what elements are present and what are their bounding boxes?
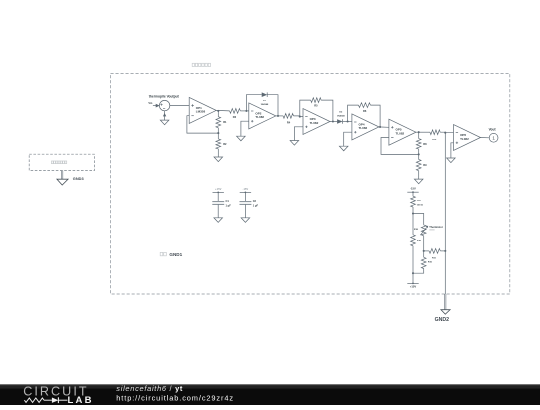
- node OP5 out: [418, 131, 420, 133]
- svg-text:TL082: TL082: [460, 137, 469, 141]
- resistor R5: [311, 98, 321, 103]
- wire OP1 out: [216, 109, 229, 112]
- wire OP4 out to OP5 +in: [378, 126, 389, 128]
- ground GND3: [57, 179, 68, 185]
- op-amp OP5 TL082: [389, 119, 416, 145]
- svg-text:-15V: -15V: [410, 187, 416, 191]
- svg-text:GND2: GND2: [435, 317, 450, 323]
- ground under OP4: [339, 146, 348, 151]
- power -15V for C2: [240, 187, 251, 194]
- wire OP2 +in to ground: [241, 121, 249, 136]
- label C2: [253, 199, 257, 203]
- label thermopile Voutput: [149, 95, 180, 99]
- CircuitLab logo text: [23, 385, 88, 399]
- wire R4 to OP3 -in: [294, 115, 304, 118]
- svg-text:GND1: GND1: [169, 252, 182, 257]
- resistor R2: [216, 139, 221, 149]
- svg-text:Vout: Vout: [489, 128, 497, 132]
- label GND1: [169, 252, 182, 257]
- svg-text:1 μF: 1 μF: [253, 203, 259, 207]
- ground GND3 stem: [62, 171, 63, 180]
- wire V1 to ground: [164, 111, 166, 120]
- CircuitLab logo diode: [52, 397, 68, 403]
- wire V1 to OP1 +in: [170, 105, 189, 107]
- diode D1 1N4148: [262, 92, 268, 97]
- wire C1 to ground: [217, 204, 219, 217]
- svg-text:TL082: TL082: [359, 126, 368, 130]
- wire R15 to bridge bottom: [413, 269, 424, 274]
- wire feedback to OP5 -in: [381, 138, 419, 155]
- label R2: [223, 142, 227, 146]
- op-amp OP6 TL082: [454, 125, 481, 151]
- node thermistor bottom: [423, 250, 425, 252]
- resistor R11: [429, 249, 440, 254]
- svg-text:TL082: TL082: [396, 132, 405, 136]
- node OP4 out: [379, 126, 381, 128]
- svg-text:1N4148: 1N4148: [261, 103, 269, 106]
- ground GND2 stem: [445, 294, 446, 310]
- label R6: [363, 109, 367, 113]
- ground under C2: [241, 218, 250, 223]
- footer bar: [0, 384, 540, 405]
- wire R8 to node: [418, 149, 420, 154]
- wire OP6 out to Vout: [480, 137, 489, 139]
- svg-text:TL082: TL082: [310, 121, 319, 125]
- node R11 GND2 wire: [444, 250, 446, 252]
- svg-text:1 μF: 1 μF: [226, 203, 232, 207]
- wire C2 to ground: [244, 204, 246, 217]
- svg-text:C2: C2: [253, 199, 257, 203]
- label C1 value: [226, 203, 232, 207]
- label R11: [432, 257, 437, 259]
- node OP2 -in: [245, 110, 247, 112]
- thermistor R18: [420, 225, 428, 236]
- node bridge bottom: [412, 272, 414, 274]
- node OP3 out: [332, 120, 334, 122]
- resistor R16: [411, 235, 416, 246]
- node OP4 -in: [347, 120, 349, 122]
- label R5: [314, 104, 318, 108]
- svg-text:R3: R3: [233, 115, 237, 119]
- label R3: [233, 115, 237, 119]
- wire R3 to OP2 -in: [240, 110, 249, 112]
- wire OP1 out to R1: [217, 111, 219, 117]
- svg-text:R1: R1: [223, 120, 227, 124]
- svg-text:R2: R2: [223, 142, 227, 146]
- svg-text:R6: R6: [363, 109, 367, 113]
- wire R17 to bridge top: [412, 207, 414, 214]
- resistor R3: [230, 109, 241, 114]
- wire OP5 out: [415, 131, 430, 133]
- schematic title text (tofu): [192, 63, 210, 66]
- ground under R2: [214, 157, 223, 162]
- op-amp OP3 TL082: [303, 109, 330, 135]
- svg-text:R8: R8: [423, 142, 427, 146]
- voltage source V1: [159, 100, 169, 110]
- wire R5 to OP3 out: [321, 100, 333, 121]
- wire OP3 out to D2: [330, 121, 337, 123]
- svg-text:R4: R4: [287, 120, 291, 124]
- resistor R17: [411, 196, 416, 207]
- wire bridge bottom to +15V: [412, 273, 414, 283]
- wire OP5 out to R8: [418, 132, 420, 138]
- wire D1 to OP2 out: [267, 95, 278, 116]
- label R17 value: [417, 204, 423, 206]
- svg-text:Vin: Vin: [148, 101, 152, 105]
- label D2 value: [337, 114, 345, 117]
- label thermistor value: [429, 229, 434, 231]
- label R9: [423, 163, 427, 167]
- svg-text:LAB: LAB: [68, 395, 94, 405]
- CircuitLab logo LAB: [68, 395, 94, 406]
- wire R16 to bridge bottom: [412, 246, 414, 273]
- wire OP3 +in to ground: [294, 127, 303, 141]
- label R8: [423, 142, 427, 146]
- op-amp OP4 TL082: [352, 114, 379, 140]
- svg-text:C1: C1: [226, 199, 230, 203]
- wire R10 to OP6 -in: [440, 131, 453, 134]
- Vin arrow: [153, 104, 160, 108]
- resistor R9: [416, 160, 421, 171]
- wire OP2 out: [276, 115, 283, 117]
- svg-text:silencefaith6 / yt: silencefaith6 / yt: [116, 384, 183, 393]
- svg-text:100 Ω: 100 Ω: [417, 204, 423, 206]
- ground under OP2: [237, 136, 246, 141]
- resistor R8: [416, 139, 421, 150]
- resistor R6: [359, 103, 371, 108]
- wire bridge top to R16: [412, 214, 414, 235]
- node R8 R9: [418, 153, 420, 155]
- label R18: [414, 229, 419, 231]
- label GND2: [435, 317, 450, 323]
- svg-text:TL082: TL082: [255, 115, 264, 119]
- label R15: [428, 262, 433, 264]
- wire OP3 feedback up: [300, 100, 311, 117]
- footer url: [116, 393, 234, 402]
- node OP1 out: [217, 110, 219, 112]
- wire OP4 feedback up: [348, 105, 359, 121]
- svg-text:LM358: LM358: [196, 110, 206, 114]
- power +15V for C1: [213, 187, 224, 194]
- wire OP6 +in to ground: [451, 143, 454, 158]
- op-amp OP2 TL082: [249, 103, 276, 129]
- footer username: [116, 384, 183, 393]
- wire R2 to ground: [217, 149, 219, 157]
- wire OP2 feedback up: [246, 95, 261, 111]
- label Thermistor: [429, 225, 443, 229]
- label D1 value: [261, 103, 269, 106]
- label R16: [417, 240, 422, 242]
- node R1 R2: [217, 132, 219, 134]
- wire thermistor to node: [423, 236, 425, 251]
- wire node to R11: [424, 250, 429, 252]
- power -15V bridge: [407, 187, 418, 194]
- wire -15V to C2: [244, 192, 246, 201]
- label R1: [223, 120, 227, 124]
- label C2 value: [253, 203, 259, 207]
- svg-text:+15V: +15V: [215, 187, 222, 191]
- wire OP6 -in to GND2: [444, 133, 446, 294]
- V1 polarity arrow: [163, 113, 166, 116]
- label Vout: [489, 128, 497, 132]
- wire bridge top to thermistor: [413, 214, 424, 225]
- ground under V1: [160, 120, 169, 125]
- wire R6 to OP4 out: [370, 105, 380, 127]
- resistor R10: [430, 130, 440, 135]
- label R4: [287, 120, 291, 124]
- wire OP4 +in to ground: [344, 132, 352, 146]
- svg-text:+15V: +15V: [410, 284, 417, 288]
- label R17: [417, 200, 422, 202]
- label GND3: [73, 176, 85, 181]
- ground under OP3: [290, 141, 299, 146]
- svg-text:R5: R5: [314, 104, 318, 108]
- ground GND2: [441, 310, 450, 315]
- resistor R15: [421, 257, 426, 268]
- ground under R9: [414, 179, 423, 184]
- capacitor C2: [240, 202, 252, 205]
- wire D2 to OP4 -in: [343, 121, 352, 123]
- resistor R1: [216, 117, 221, 128]
- ground under C1: [214, 218, 223, 223]
- node OP2 out: [277, 115, 279, 117]
- diode D2 1N4148: [337, 119, 343, 124]
- power +15V bridge: [407, 283, 418, 289]
- capacitor C1: [212, 202, 224, 205]
- wire node to R2: [217, 133, 219, 139]
- label D1: [263, 100, 267, 102]
- output terminal Vout: [489, 133, 498, 142]
- label C1: [226, 199, 230, 203]
- wire feedback to OP1 -in: [187, 116, 218, 133]
- wire R11 to GND2 wire: [440, 250, 445, 252]
- wire -15V to R17: [412, 192, 414, 196]
- wire node to R9: [418, 154, 420, 159]
- svg-text:GND3: GND3: [73, 176, 85, 181]
- wire R1 to node: [217, 128, 219, 133]
- label D2: [339, 112, 343, 114]
- wire node to R15: [423, 251, 425, 257]
- wire R9 to ground: [418, 171, 420, 179]
- op-amp OP1 LM358: [189, 97, 216, 123]
- label Vin: [148, 101, 152, 105]
- svg-text:http://circuitlab.com/c29zr4z: http://circuitlab.com/c29zr4z: [116, 393, 234, 402]
- annotation box: [29, 154, 94, 170]
- node OP6 -in: [444, 132, 446, 134]
- label R10: [432, 139, 437, 141]
- main dashed enclosure: [111, 73, 510, 294]
- svg-text:R9: R9: [423, 163, 427, 167]
- svg-text:-15V: -15V: [243, 187, 249, 191]
- node OP3 -in: [299, 116, 301, 118]
- CircuitLab logo resistor squiggle: [24, 398, 52, 402]
- wire +15V to C1: [217, 192, 219, 201]
- label GND1 tofu: [160, 252, 166, 255]
- svg-text:thermopile Voutput: thermopile Voutput: [149, 95, 180, 99]
- annotation box text (tofu): [51, 161, 66, 164]
- ground under OP6: [447, 158, 456, 163]
- svg-text:Thermistor: Thermistor: [429, 225, 443, 229]
- node bridge top: [412, 212, 414, 214]
- resistor R4: [283, 114, 293, 119]
- svg-text:1N4148: 1N4148: [337, 114, 345, 117]
